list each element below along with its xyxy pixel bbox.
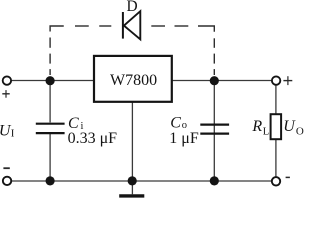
wire top rail left segment [10,80,94,82]
wire regulator ground lead [131,102,133,195]
capacitor Ci bottom plate [36,132,65,134]
wire Ci vertical lower [49,134,51,181]
label minus output [286,176,290,178]
capacitor Co top plate [200,123,229,125]
svg-text:U: U [283,118,296,135]
node junction output top [210,76,219,85]
capacitor Co bottom plate [200,133,229,135]
wire Co vertical [213,81,215,182]
svg-text:L: L [263,127,269,138]
diode D cathode bar [122,12,124,39]
terminal output minus [272,177,280,185]
ground [119,194,144,197]
wire Ci vertical upper [49,81,51,123]
svg-text:D: D [127,0,138,15]
node junction input top [46,76,55,85]
resistor RL [271,114,282,139]
wire RL lower [275,139,277,178]
regulator U1 W7800 box [94,56,172,102]
terminal output plus [272,76,280,84]
diode D triangle [124,11,140,39]
node junction output bottom [210,176,219,185]
svg-text:C: C [170,114,181,131]
svg-text:O: O [296,126,304,138]
label plus output [283,76,292,85]
node junction input bottom [46,176,55,185]
wire top rail right segment [172,80,272,82]
terminal input plus [3,76,11,84]
terminal input minus [3,177,11,185]
svg-text:0.33 μF: 0.33 μF [68,130,118,147]
wire dashed feedback left (junction up and right to diode cathode) [50,26,111,75]
svg-text:W7800: W7800 [110,72,157,89]
label minus input [3,167,9,169]
wire RL upper [275,81,277,115]
svg-text:1 μF: 1 μF [169,130,199,147]
svg-text:I: I [11,127,15,139]
capacitor Ci top plate [36,123,65,125]
svg-text:R: R [251,118,262,135]
wire bottom rail [10,180,272,182]
wire dashed feedback right (diode anode right and down to junction) [151,26,214,75]
node junction ground bottom [128,176,137,185]
label plus input [2,90,9,98]
